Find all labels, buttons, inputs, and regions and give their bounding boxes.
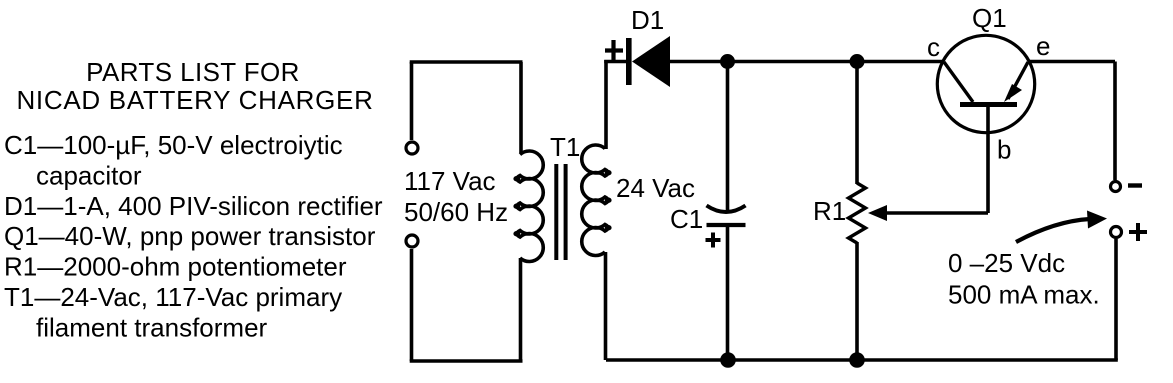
wire: left box top — [410, 60, 523, 64]
svg-text:D1—1-A, 400 PIV-silicon rectif: D1—1-A, 400 PIV-silicon rectifier — [4, 191, 383, 221]
wire: left box bottom — [410, 359, 523, 363]
svg-text:C1: C1 — [670, 204, 703, 234]
wire: top rail C1 to R1 — [728, 60, 858, 64]
wire: AC input bottom lead — [410, 249, 414, 361]
terminal: AC input top — [406, 142, 418, 154]
svg-text:T1: T1 — [550, 132, 580, 162]
terminal: output negative — [1111, 182, 1121, 192]
svg-text:D1: D1 — [631, 5, 664, 35]
wire: top rail R1 to Q1 collector — [857, 60, 943, 64]
wire: R1 top lead — [855, 62, 859, 185]
svg-text:c: c — [927, 32, 940, 62]
label: 117 Vac 50/60 Hz — [404, 166, 508, 227]
label plus — [1129, 223, 1147, 241]
parts list heading — [16, 57, 373, 115]
transistor Q1 emitter arrow — [1004, 84, 1022, 102]
wire: top rail D1 to C1 — [668, 60, 728, 64]
transistor Q1 base bar — [960, 102, 1017, 107]
transformer T1 secondary winding nubs — [605, 170, 612, 231]
wire: primary top lead — [519, 62, 523, 153]
svg-text:capacitor: capacitor — [36, 160, 142, 190]
transformer T1 secondary winding — [582, 145, 608, 255]
wiper arrow of R1 — [868, 205, 887, 221]
terminal: output positive — [1111, 227, 1122, 238]
junction: bottom rail at C1 — [720, 352, 736, 368]
capacitor C1 top plate — [707, 206, 746, 213]
svg-text:filament transformer: filament transformer — [36, 312, 268, 342]
wire: secondary top lead — [604, 60, 608, 149]
polarity + at D1 — [605, 40, 623, 60]
transformer T1 core — [556, 164, 565, 260]
transistor Q1 emitter line — [1008, 62, 1028, 99]
svg-text:0 –25 Vdc: 0 –25 Vdc — [948, 248, 1065, 278]
wire: R1 bottom lead — [855, 242, 859, 360]
wire: R1 wiper to Q1 base — [884, 105, 988, 213]
junction: top rail at R1 — [850, 54, 865, 69]
svg-text:Q1—40-W, pnp power transistor: Q1—40-W, pnp power transistor — [4, 221, 376, 251]
svg-text:24 Vac: 24 Vac — [616, 173, 695, 203]
label 0-25 Vdc / 500 mA max — [948, 248, 1100, 310]
transistor Q1 collector line — [944, 62, 973, 102]
junction: top rail at C1 — [720, 54, 735, 69]
svg-text:R1: R1 — [813, 196, 846, 226]
svg-text:500 mA max.: 500 mA max. — [948, 280, 1100, 310]
wire: C1 top lead — [726, 62, 730, 211]
svg-text:C1—100-µF, 50-V electroiytic: C1—100-µF, 50-V electroiytic — [4, 130, 343, 160]
transformer T1 primary winding — [517, 151, 543, 262]
junction: bottom rail at R1 — [849, 352, 865, 368]
transistor Q1 circle — [937, 35, 1034, 132]
capacitor C1 bottom plate — [707, 223, 746, 227]
svg-text:b: b — [997, 135, 1011, 165]
diode D1 — [626, 36, 670, 87]
parts list T1 entry — [4, 282, 342, 342]
svg-text:50/60 Hz: 50/60 Hz — [404, 197, 508, 227]
svg-text:PARTS LIST FOR: PARTS LIST FOR — [86, 57, 300, 87]
wire: top rail (secondary to diode) — [604, 60, 627, 64]
potentiometer R1 zigzag — [849, 183, 866, 243]
svg-text:Q1: Q1 — [972, 3, 1007, 33]
label minus — [1128, 183, 1142, 187]
svg-text:R1—2000-ohm potentiometer: R1—2000-ohm potentiometer — [4, 252, 347, 282]
svg-text:NICAD BATTERY CHARGER: NICAD BATTERY CHARGER — [16, 85, 373, 115]
wire: bottom rail — [606, 358, 1118, 362]
wire: AC input top lead — [410, 62, 414, 140]
wire: positive terminal to bottom rail — [1114, 239, 1118, 360]
annotation arrow to output — [1016, 219, 1090, 242]
transformer T1 primary winding nubs — [513, 176, 520, 237]
wire: emitter to negative terminal — [1029, 62, 1115, 181]
polarity + at C1 — [706, 233, 721, 248]
svg-text:T1—24-Vac, 117-Vac primary: T1—24-Vac, 117-Vac primary — [4, 282, 342, 312]
wire: secondary bottom lead — [604, 252, 608, 360]
svg-text:117 Vac: 117 Vac — [404, 166, 496, 196]
wire: C1 bottom lead — [726, 225, 730, 360]
parts list C1 entry — [4, 130, 343, 190]
wire: primary bottom lead — [519, 258, 523, 361]
svg-text:e: e — [1036, 31, 1050, 61]
terminal: AC input bottom — [406, 235, 418, 247]
